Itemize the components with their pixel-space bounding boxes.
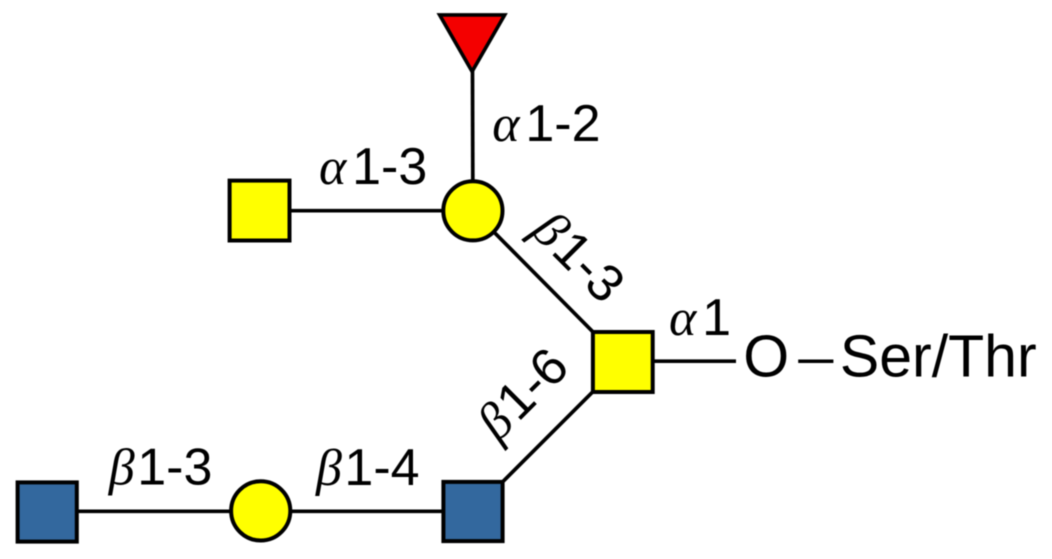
- svg-text:α1-2: α1-2: [492, 95, 600, 153]
- GalNAc (yellow square left): [230, 181, 290, 241]
- svg-text:α1-3: α1-3: [319, 138, 427, 196]
- GalNAc core (yellow square center): [593, 332, 653, 392]
- svg-text:β1-6: β1-6: [465, 337, 580, 452]
- wire: GalNAc to O (alpha1 link): [623, 359, 736, 363]
- wire: GalNAc to GlcNAc diagonal (beta1-6 link): [473, 362, 623, 512]
- wire: bottom row horizontal (beta1-3 / beta1-4 links): [47, 509, 473, 513]
- GlcNAc (blue square bottom left): [18, 482, 77, 541]
- svg-text:β1-3: β1-3: [520, 199, 635, 314]
- svg-text:β1-3: β1-3: [108, 439, 213, 497]
- svg-text:α1: α1: [669, 289, 731, 347]
- fucose Fuc (red triangle): [440, 15, 505, 72]
- galactose Gal (yellow circle bottom): [231, 481, 290, 540]
- svg-text:β1-4: β1-4: [315, 439, 420, 497]
- wire: Fuc to Gal vertical (alpha1-2 link): [471, 40, 475, 211]
- wire: Gal to GalNAc diagonal (beta1-3 link): [473, 211, 623, 362]
- wire: dash between O and Ser/Thr: [798, 359, 833, 363]
- wire: GalNAc to Gal horizontal (alpha1-3 link): [260, 209, 473, 213]
- GlcNAc (blue square bottom right): [443, 482, 502, 541]
- galactose Gal (yellow circle top): [443, 181, 502, 240]
- svg-text:Ser/Thr: Ser/Thr: [840, 323, 1037, 389]
- svg-text:O: O: [743, 323, 789, 389]
